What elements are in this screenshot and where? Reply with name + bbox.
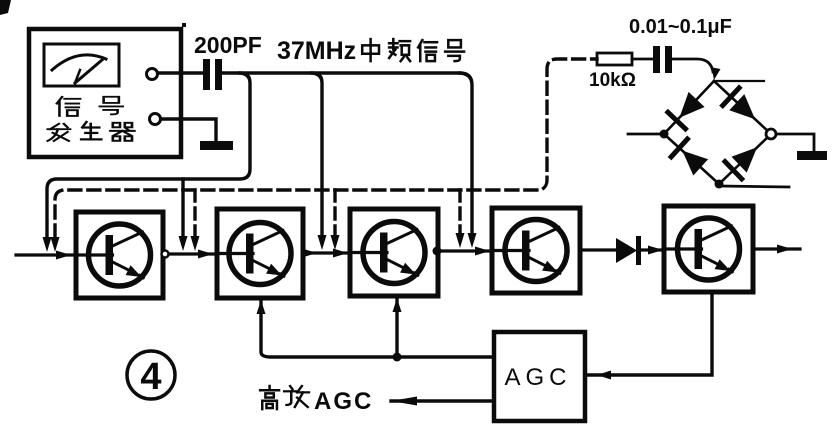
svg-text:37MHz: 37MHz: [277, 37, 356, 65]
arrow into stage2: [198, 250, 213, 259]
IF amplifier stage V4: [492, 208, 580, 293]
wire stage1->stage2: [163, 252, 217, 255]
svg-text:AGC: AGC: [504, 364, 571, 391]
capacitor C2 0.01~0.1uF: [653, 46, 660, 73]
wire: AGC to stage2/stage3 (forward AGC bus): [261, 302, 494, 357]
input wire: [16, 253, 76, 256]
arrow into stage4: [475, 247, 490, 256]
bridge left node + stub wire: [660, 130, 669, 139]
diode D3 (bottom-left, points to left node): [682, 151, 708, 176]
ground (generator): [200, 141, 233, 150]
wire: stage5 bottom down to AGC input: [585, 292, 712, 375]
terminal (lower ground): [150, 114, 161, 125]
ground (bridge): [797, 151, 827, 160]
bridge top node stub wire right: [714, 80, 764, 82]
terminal (upper output): [147, 69, 158, 80]
svg-text:200PF: 200PF: [194, 32, 262, 58]
arrow into stage5: [648, 246, 663, 255]
wire R1 to C2: [632, 58, 653, 61]
junction node (stage1 output): [162, 251, 169, 258]
wire stage3->stage4: [438, 249, 492, 252]
signal generator box: [29, 29, 181, 157]
label 信号 (signal): [57, 97, 80, 116]
bridge right node (open) + wire to ground: [766, 129, 776, 139]
bridge bottom node + stub wire: [715, 180, 724, 189]
wire: branch drop to stage2 input x=183: [181, 179, 184, 239]
dashed drop to stage4 input: [458, 190, 461, 237]
svg-text:4: 4: [140, 356, 161, 398]
wire: lower terminal to ground: [161, 119, 216, 140]
wire: branch drop to stage3 input x=322: [312, 73, 322, 237]
wire stage4->D5: [580, 248, 616, 251]
scan speck top-left corner: [0, 0, 11, 15]
arrow up into stage3: [393, 298, 402, 312]
dashed drop to stage3 input: [333, 190, 336, 237]
junction dot AGC bus/stage3: [393, 353, 402, 362]
output arrow: [777, 245, 792, 254]
diode D1 (top-left, points to left node): [679, 92, 704, 118]
AGC box U1: [494, 332, 585, 421]
arrow into stage3: [333, 249, 348, 258]
wire C2 to bridge top node: [672, 59, 713, 72]
label 高放AGC: [260, 386, 279, 409]
wire: upper terminal to C1: [158, 71, 203, 74]
IF amplifier stage V3: [350, 209, 438, 296]
dashed drop to stage2 input: [193, 190, 196, 237]
label 发生器 (generator): [48, 124, 70, 141]
diode D4 (bottom-right, points to right node): [732, 147, 758, 172]
wire stage2->stage3: [303, 251, 350, 254]
capacitor C1 200PF: [203, 59, 210, 90]
figure number (4): [127, 351, 175, 399]
IF amplifier stage V5: [664, 206, 753, 292]
wire: branch drop to stage4 input x=472: [460, 73, 472, 237]
wire junction arrow into node A (stage1 input): [43, 237, 52, 252]
output wire from stage5: [753, 247, 800, 250]
svg-text:0.01~0.1μF: 0.01~0.1μF: [629, 16, 732, 38]
arrow for 高放AGC output: [391, 397, 417, 406]
arrow into AGC right side: [597, 371, 611, 380]
wire: C1 output bus (y=73): [222, 71, 460, 74]
diode D5 (video detector): [616, 238, 637, 263]
diode D2 (top-right, points to right node): [729, 94, 755, 119]
IF amplifier stage V1: [76, 212, 163, 298]
arrow after stage2: [302, 249, 317, 258]
svg-text:AGC: AGC: [314, 388, 373, 415]
svg-text:10kΩ: 10kΩ: [589, 70, 636, 91]
dashed arrow into stage1 input: [51, 237, 60, 252]
wire up to stage3: [395, 300, 398, 357]
dashed wire: 37MHz feed bus y=190 with riser to 10k branch: [55, 59, 597, 237]
meter M1 inside generator: [44, 44, 119, 86]
resistor R1 10k: [597, 53, 632, 65]
input arrow into stage1: [56, 251, 71, 260]
junction dot (stage3 output): [433, 247, 442, 256]
wire: AGC output to tuner (高放AGC): [391, 399, 494, 402]
IF amplifier stage V2: [217, 209, 303, 298]
wire D5->stage5: [641, 248, 664, 251]
scan speck near 200PF label: [182, 23, 186, 27]
wire: branch to stage1 input (corner x=250, y=179 run, drop x=47): [47, 73, 250, 239]
arrow up into stage2: [257, 300, 266, 314]
bridge frame wires: [664, 81, 714, 134]
